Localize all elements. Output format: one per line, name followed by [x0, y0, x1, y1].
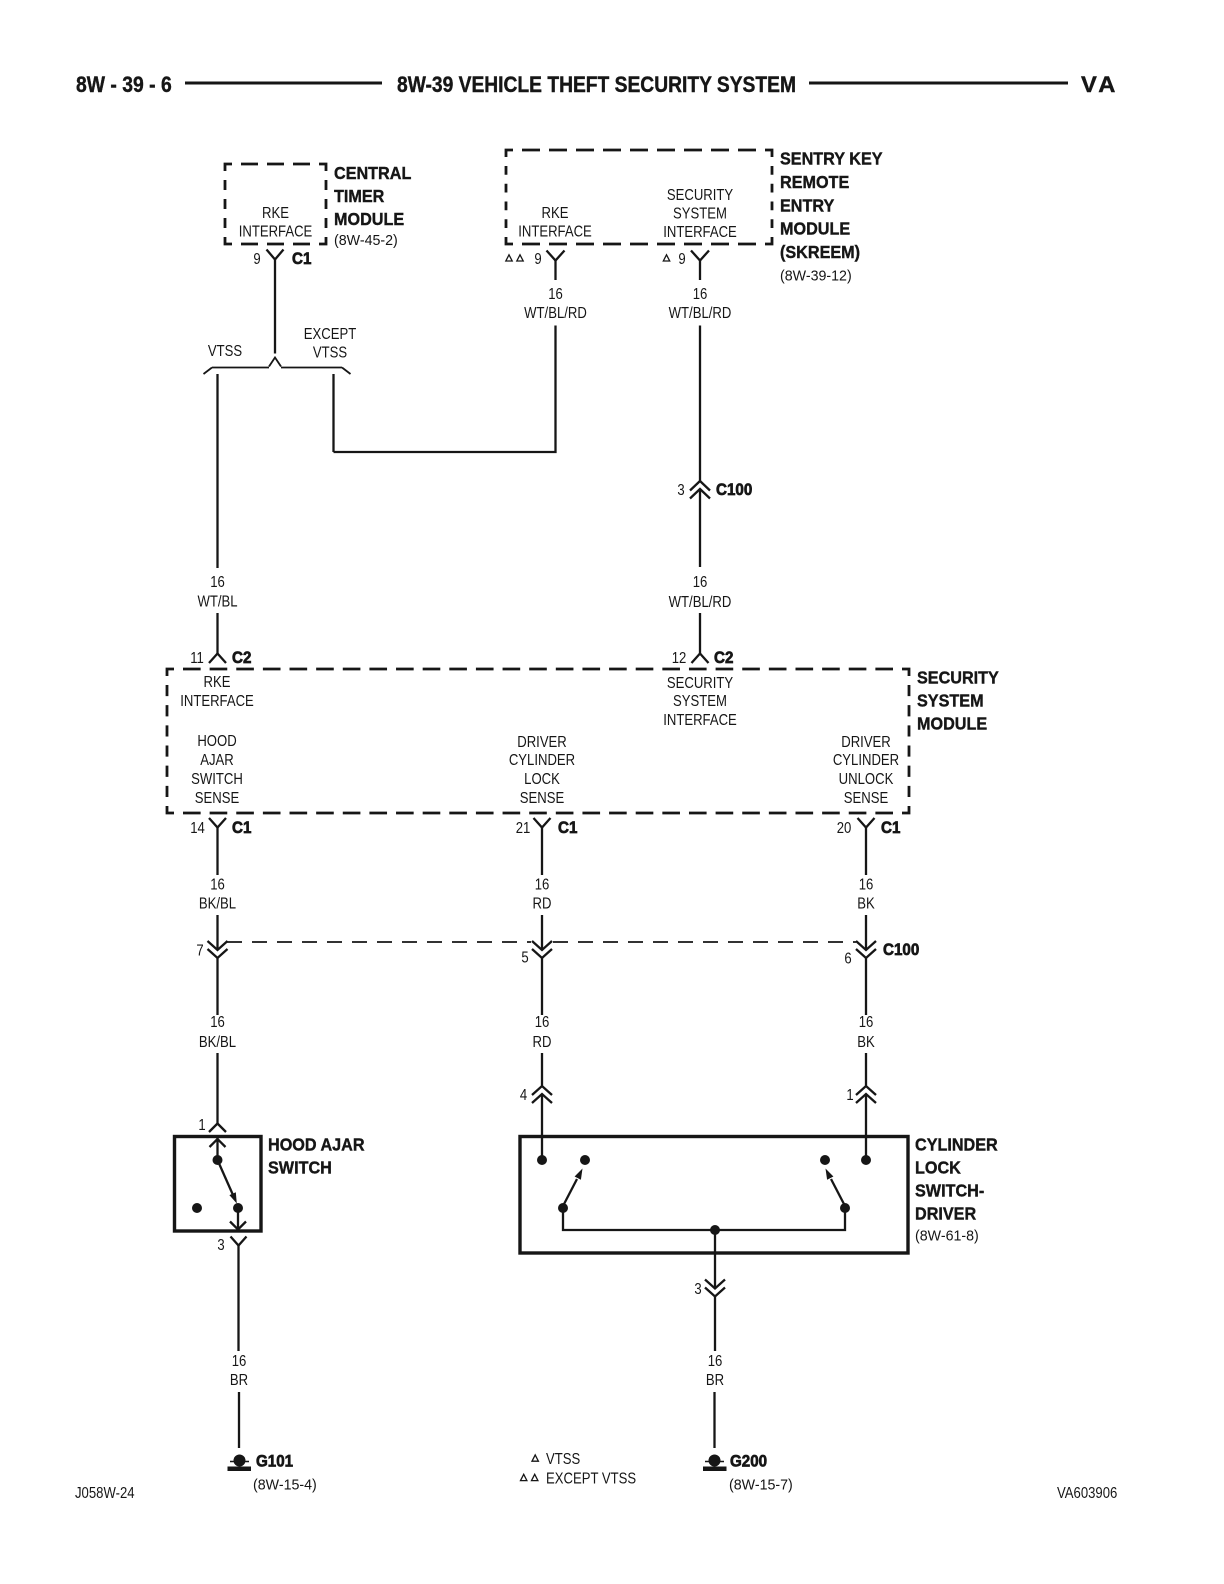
- svg-text:SENTRY KEY: SENTRY KEY: [780, 149, 883, 169]
- pin 14 connector C1 of security system module: [190, 818, 251, 837]
- svg-text:SYSTEM: SYSTEM: [673, 205, 727, 222]
- legend VTSS marker: [532, 1451, 580, 1468]
- label DRIVER CYLINDER LOCK SENSE: [509, 734, 575, 807]
- svg-text:SECURITY: SECURITY: [667, 187, 734, 204]
- wire from C100 down: [699, 489, 701, 567]
- cylinder lock switch right lever with arrow: [826, 1169, 846, 1207]
- svg-text:C2: C2: [714, 649, 734, 667]
- header VA badge: [1081, 72, 1119, 97]
- svg-text:DRIVER: DRIVER: [915, 1204, 976, 1224]
- svg-text:(8W-15-7): (8W-15-7): [729, 1477, 793, 1493]
- svg-text:16: 16: [535, 1014, 550, 1031]
- ground G101: [228, 1453, 317, 1494]
- pin 9 of SKREEM security system interface with one triangle: [663, 251, 709, 269]
- svg-text:BK: BK: [857, 1034, 875, 1051]
- svg-text:MODULE: MODULE: [780, 219, 850, 239]
- svg-text:SWITCH: SWITCH: [268, 1158, 332, 1178]
- svg-text:CENTRAL: CENTRAL: [334, 163, 411, 183]
- svg-text:8W-39 VEHICLE THEFT SECURITY S: 8W-39 VEHICLE THEFT SECURITY SYSTEM: [397, 73, 796, 97]
- svg-text:CYLINDER: CYLINDER: [509, 752, 575, 769]
- svg-text:3: 3: [677, 482, 684, 499]
- svg-text:DRIVER: DRIVER: [517, 734, 567, 751]
- wire to ground G200: [713, 1392, 715, 1448]
- svg-text:16: 16: [693, 574, 708, 591]
- svg-text:J058W-24: J058W-24: [75, 1485, 135, 1502]
- security system module title: [917, 668, 999, 734]
- wire into cylinder lock switch left: [541, 1094, 543, 1157]
- wire down to label: [714, 1297, 716, 1352]
- svg-text:20: 20: [837, 820, 852, 837]
- node cylinder lock switch lock contact: [580, 1155, 590, 1165]
- svg-text:LOCK: LOCK: [524, 771, 560, 788]
- svg-text:11: 11: [190, 650, 204, 667]
- svg-text:INTERFACE: INTERFACE: [239, 223, 313, 240]
- svg-text:C1: C1: [881, 819, 901, 837]
- svg-text:SECURITY: SECURITY: [917, 668, 999, 688]
- svg-text:(8W-61-8): (8W-61-8): [915, 1228, 979, 1244]
- wire to ground G101: [238, 1392, 240, 1448]
- wire from central timer module pin 9 down to brace: [274, 260, 276, 354]
- wire gauge label 16 BK/BL: [199, 876, 236, 912]
- cylinder lock switch common bus wire: [563, 1208, 845, 1230]
- svg-text:C100: C100: [883, 941, 919, 959]
- label EXCEPT VTSS branch: [304, 326, 357, 362]
- cylinder lock switch title: [915, 1135, 998, 1245]
- node hood ajar switch open contact: [192, 1203, 202, 1213]
- svg-text:BR: BR: [230, 1372, 248, 1389]
- svg-text:(8W-15-4): (8W-15-4): [253, 1477, 317, 1493]
- svg-text:12: 12: [672, 650, 687, 667]
- svg-text:RKE: RKE: [262, 205, 289, 222]
- module U3 SECURITY SYSTEM MODULE dashed box: [167, 669, 909, 813]
- wire gauge label 16 WT/BL/RD lower segment: [669, 574, 732, 611]
- node hood ajar switch common terminal: [213, 1155, 223, 1165]
- svg-text:BK/BL: BK/BL: [199, 895, 236, 912]
- wire gauge label 16 BK: [857, 876, 875, 912]
- svg-text:RKE: RKE: [204, 674, 231, 691]
- legend EXCEPT VTSS marker: [521, 1470, 637, 1487]
- svg-text:EXCEPT VTSS: EXCEPT VTSS: [546, 1470, 636, 1487]
- svg-text:8W - 39 - 6: 8W - 39 - 6: [76, 73, 172, 97]
- svg-text:INTERFACE: INTERFACE: [180, 693, 254, 710]
- connector C100 dashed bulkhead line: [227, 941, 856, 943]
- svg-text:1: 1: [846, 1087, 853, 1104]
- svg-text:3: 3: [217, 1237, 224, 1254]
- wires below C100 row: [218, 958, 867, 1016]
- svg-text:DRIVER: DRIVER: [841, 734, 891, 751]
- wire gauge label 16 RD: [533, 876, 552, 912]
- pin 11 connector C2 of security system module: [190, 649, 251, 667]
- svg-text:14: 14: [190, 820, 205, 837]
- hood ajar switch lever with arrow: [218, 1160, 237, 1204]
- wire to cylinder lock switch via connector pin 1: [865, 1053, 867, 1086]
- svg-text:SENSE: SENSE: [520, 790, 565, 807]
- svg-text:SYSTEM: SYSTEM: [917, 691, 984, 711]
- svg-text:WT/BL/RD: WT/BL/RD: [669, 305, 732, 322]
- pin 3 of hood ajar switch: [217, 1237, 246, 1255]
- svg-text:AJAR: AJAR: [200, 752, 234, 769]
- wire to pin 12: [699, 613, 701, 654]
- pin 21 connector C1 of security system module: [516, 818, 578, 837]
- module U2 SKREEM dashed box: [506, 150, 772, 244]
- svg-text:16: 16: [708, 1353, 723, 1370]
- switch S1 HOOD AJAR SWITCH box: [175, 1137, 262, 1232]
- svg-text:16: 16: [548, 286, 563, 303]
- svg-text:SENSE: SENSE: [844, 790, 889, 807]
- connector C100 pin 3 inline chevrons: [677, 481, 752, 499]
- svg-text:CYLINDER: CYLINDER: [833, 752, 899, 769]
- svg-text:HOOD AJAR: HOOD AJAR: [268, 1135, 365, 1155]
- wire from common junction out of box: [714, 1230, 716, 1288]
- wire from pin 20 down: [865, 828, 867, 876]
- connector C100 pin 7 chevrons: [196, 941, 227, 960]
- svg-text:9: 9: [253, 251, 260, 268]
- wire EXCEPT VTSS branch down to junction: [332, 374, 334, 452]
- wire to pin 11: [216, 613, 218, 654]
- svg-text:16: 16: [535, 876, 550, 893]
- svg-text:RKE: RKE: [542, 205, 569, 222]
- svg-text:RD: RD: [533, 1034, 552, 1051]
- svg-text:VA603906: VA603906: [1057, 1485, 1117, 1502]
- header rule right: [809, 82, 1068, 85]
- svg-text:C100: C100: [716, 481, 752, 499]
- connector C100 pin 6 chevrons: [844, 941, 919, 968]
- module U1 CENTRAL TIMER MODULE dashed box: [225, 164, 326, 244]
- wire from hood ajar switch pin 3 down: [237, 1246, 239, 1352]
- label SECURITY SYSTEM INTERFACE inside security system module: [663, 675, 737, 729]
- pin 3 chevrons below cylinder lock switch: [694, 1280, 725, 1299]
- connector pin 4 chevrons: [520, 1086, 552, 1104]
- svg-text:C2: C2: [232, 649, 252, 667]
- wire to cylinder lock switch via connector pin 4: [541, 1053, 543, 1086]
- wire gauge label 16 BR left: [230, 1353, 248, 1389]
- ground G200: [703, 1453, 793, 1494]
- svg-text:(SKREEM): (SKREEM): [780, 242, 860, 262]
- svg-text:G200: G200: [730, 1453, 767, 1471]
- svg-text:16: 16: [210, 1014, 225, 1031]
- svg-text:16: 16: [693, 286, 708, 303]
- node cylinder lock switch right wire terminal: [861, 1155, 871, 1165]
- wire stub from SKREEM security system interface pin: [699, 261, 701, 281]
- svg-text:BK/BL: BK/BL: [199, 1034, 236, 1051]
- label VTSS branch: [208, 343, 242, 360]
- wire from label down then left to EXCEPT VTSS branch: [334, 326, 556, 453]
- connector pin 1 chevrons: [846, 1086, 876, 1104]
- switch S2 CYLINDER LOCK SWITCH-DRIVER box: [520, 1137, 908, 1254]
- wire down to connector C100: [699, 326, 701, 482]
- svg-text:SENSE: SENSE: [195, 790, 240, 807]
- hood ajar switch title: [268, 1135, 365, 1178]
- hood ajar switch internal wire to bottom with exit chevron: [230, 1208, 246, 1230]
- svg-text:16: 16: [859, 1014, 874, 1031]
- svg-text:INTERFACE: INTERFACE: [663, 224, 737, 241]
- svg-text:SWITCH-: SWITCH-: [915, 1181, 985, 1201]
- wire gauge label 16 RD lower: [533, 1014, 552, 1051]
- label RKE INTERFACE inside security system module: [180, 674, 254, 710]
- svg-text:4: 4: [520, 1087, 527, 1104]
- svg-text:5: 5: [521, 949, 528, 966]
- pin 9 connector C1 of central timer module: [253, 250, 311, 269]
- SKREEM module title: [780, 149, 883, 285]
- svg-text:VTSS: VTSS: [313, 344, 347, 361]
- hood ajar switch internal entry chevron: [210, 1139, 226, 1147]
- footer sheet code J058W-24: [75, 1485, 135, 1502]
- wire from pin 21 down: [541, 828, 543, 876]
- svg-text:16: 16: [210, 574, 225, 591]
- central timer module title: [334, 163, 411, 249]
- svg-text:SWITCH: SWITCH: [191, 771, 243, 788]
- wire gauge label 16 WT/BL on VTSS wire: [197, 574, 237, 611]
- label DRIVER CYLINDER UNLOCK SENSE: [833, 734, 899, 807]
- svg-text:21: 21: [516, 820, 531, 837]
- svg-text:UNLOCK: UNLOCK: [839, 771, 894, 788]
- svg-text:CYLINDER: CYLINDER: [915, 1135, 998, 1155]
- svg-text:9: 9: [534, 251, 541, 268]
- wire to hood ajar switch pin 1: [216, 1053, 218, 1124]
- svg-text:MODULE: MODULE: [917, 714, 987, 734]
- svg-text:SYSTEM: SYSTEM: [673, 693, 727, 710]
- svg-text:ENTRY: ENTRY: [780, 196, 835, 216]
- svg-text:9: 9: [678, 251, 685, 268]
- cylinder lock switch left lever with arrow: [563, 1169, 583, 1207]
- svg-text:WT/BL/RD: WT/BL/RD: [669, 594, 732, 611]
- svg-text:1: 1: [198, 1117, 205, 1134]
- svg-text:MODULE: MODULE: [334, 209, 404, 229]
- wire gauge label 16 BR right: [706, 1353, 724, 1389]
- svg-text:(8W-39-12): (8W-39-12): [780, 268, 852, 284]
- svg-text:WT/BL: WT/BL: [197, 593, 237, 610]
- node cylinder lock switch left pivot: [558, 1203, 568, 1213]
- hood ajar switch internal wire from top: [216, 1138, 218, 1159]
- wire gauge label 16 BK/BL lower: [199, 1014, 236, 1051]
- svg-text:HOOD: HOOD: [197, 733, 236, 750]
- svg-text:G101: G101: [256, 1453, 293, 1471]
- node cylinder lock switch common junction: [710, 1225, 720, 1235]
- svg-text:BR: BR: [706, 1372, 724, 1389]
- svg-text:(8W-45-2): (8W-45-2): [334, 233, 398, 249]
- svg-text:WT/BL/RD: WT/BL/RD: [524, 305, 587, 322]
- svg-text:C1: C1: [232, 819, 252, 837]
- pin 20 connector C1 of security system module: [837, 818, 901, 837]
- pin 9 of SKREEM RKE interface with two triangles: [506, 251, 565, 269]
- svg-text:EXCEPT: EXCEPT: [304, 326, 357, 343]
- svg-text:TIMER: TIMER: [334, 186, 384, 206]
- wire gauge label 16 BK lower: [857, 1014, 875, 1051]
- node hood ajar switch closed contact: [233, 1203, 243, 1213]
- svg-text:VTSS: VTSS: [546, 1451, 580, 1468]
- footer drawing number VA603906: [1057, 1485, 1117, 1502]
- svg-text:RD: RD: [533, 895, 552, 912]
- svg-text:BK: BK: [857, 895, 875, 912]
- svg-text:C1: C1: [292, 250, 312, 268]
- svg-text:LOCK: LOCK: [915, 1158, 961, 1178]
- label RKE INTERFACE inside central timer module: [239, 205, 313, 241]
- svg-text:INTERFACE: INTERFACE: [663, 712, 737, 729]
- node cylinder lock switch unlock contact: [820, 1155, 830, 1165]
- svg-text:16: 16: [232, 1353, 247, 1370]
- node cylinder lock switch left wire terminal: [537, 1155, 547, 1165]
- svg-text:3: 3: [694, 1281, 701, 1298]
- pin 12 connector C2 of security system module: [672, 649, 734, 667]
- svg-text:16: 16: [210, 876, 225, 893]
- header title 8W-39 VEHICLE THEFT SECURITY SYSTEM: [397, 73, 796, 97]
- svg-text:6: 6: [844, 950, 851, 967]
- wires down to C100 row: [218, 915, 867, 950]
- brace splitting VTSS / EXCEPT VTSS: [204, 358, 351, 375]
- label RKE INTERFACE inside SKREEM: [518, 205, 592, 241]
- pin 1 of hood ajar switch: [198, 1117, 226, 1134]
- svg-text:VA: VA: [1081, 72, 1119, 97]
- header page number 8W - 39 - 6: [76, 73, 172, 97]
- svg-text:SECURITY: SECURITY: [667, 675, 734, 692]
- wire into cylinder lock switch right: [865, 1094, 867, 1157]
- svg-text:16: 16: [859, 876, 874, 893]
- wire from pin 14 down: [216, 828, 218, 876]
- wire gauge label 16 WT/BL/RD on security system interface wire: [669, 286, 732, 322]
- svg-text:7: 7: [196, 942, 203, 959]
- svg-text:INTERFACE: INTERFACE: [518, 223, 592, 240]
- wire stub from SKREEM RKE pin: [554, 261, 556, 281]
- wire VTSS branch down: [216, 374, 218, 568]
- label SECURITY SYSTEM INTERFACE inside SKREEM: [663, 187, 737, 241]
- svg-text:C1: C1: [558, 819, 578, 837]
- connector C100 pin 5 chevrons: [521, 941, 552, 967]
- label HOOD AJAR SWITCH SENSE: [191, 733, 243, 807]
- node cylinder lock switch right pivot: [840, 1203, 850, 1213]
- header rule left: [185, 82, 382, 85]
- svg-text:REMOTE: REMOTE: [780, 172, 849, 192]
- svg-text:VTSS: VTSS: [208, 343, 242, 360]
- wire gauge label 16 WT/BL/RD on SKREEM RKE wire: [524, 286, 587, 322]
